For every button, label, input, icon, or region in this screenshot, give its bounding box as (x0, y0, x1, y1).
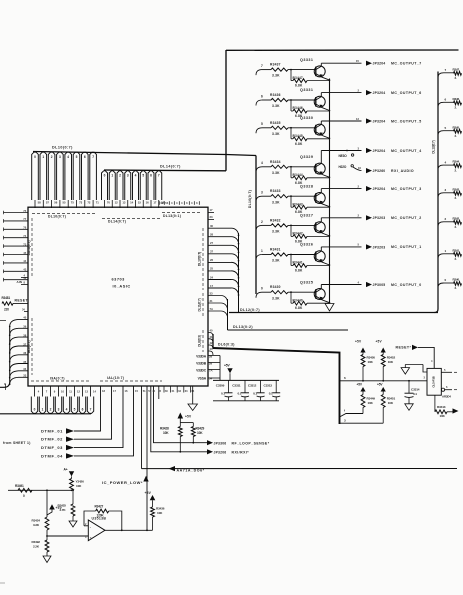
svg-text:R3440: R3440 (293, 298, 303, 302)
svg-text:+5V: +5V (224, 364, 230, 368)
svg-text:44: 44 (23, 259, 26, 263)
svg-text:RXI/RXI*: RXI/RXI* (232, 451, 250, 455)
svg-text:JP3005: JP3005 (373, 283, 386, 287)
svg-text:5: 5 (261, 122, 263, 126)
svg-text:33: 33 (210, 291, 214, 295)
svg-text:-: - (90, 525, 91, 529)
svg-text:4: 4 (261, 161, 263, 165)
svg-text:JP3203: JP3203 (373, 216, 386, 220)
svg-text:6: 6 (150, 174, 152, 178)
svg-text:35: 35 (23, 360, 26, 364)
svg-text:MC_OUTPUT_2: MC_OUTPUT_2 (391, 216, 422, 220)
svg-text:3.3K: 3.3K (272, 230, 280, 234)
svg-text:10K: 10K (368, 401, 374, 405)
svg-text:DL10(0:7): DL10(0:7) (48, 215, 66, 219)
svg-text:1: 1 (42, 407, 44, 411)
svg-text:2.: 2. (455, 168, 458, 172)
svg-text:0: 0 (261, 287, 263, 291)
svg-text:39: 39 (23, 325, 26, 329)
svg-text:R3445: R3445 (293, 134, 303, 138)
svg-text:7: 7 (261, 64, 263, 68)
svg-text:15: 15 (356, 59, 360, 63)
svg-text:0.1: 0.1 (269, 392, 273, 396)
svg-text:JP3260: JP3260 (373, 169, 386, 173)
svg-text:30: 30 (210, 224, 214, 228)
svg-text:34: 34 (23, 367, 26, 371)
svg-text:0.1: 0.1 (221, 392, 225, 396)
svg-text:19: 19 (160, 201, 163, 205)
svg-text:R340: R340 (453, 278, 460, 282)
svg-text:5: 5 (74, 407, 76, 411)
svg-text:DATA(0:7): DATA(0:7) (27, 241, 31, 256)
svg-text:38: 38 (23, 333, 26, 337)
svg-text:I9A(0:7): I9A(0:7) (50, 376, 65, 380)
svg-text:R3444: R3444 (293, 173, 303, 177)
svg-text:26: 26 (210, 258, 214, 262)
svg-text:12: 12 (115, 200, 119, 204)
svg-text:DTMF_03: DTMF_03 (41, 445, 63, 450)
svg-text:0: 0 (104, 174, 106, 178)
svg-text:DL6(0:3): DL6(0:3) (198, 335, 202, 347)
svg-text:MC_OUTPUT_4: MC_OUTPUT_4 (391, 149, 422, 153)
svg-text:25: 25 (210, 267, 214, 271)
svg-text:37: 37 (210, 250, 214, 254)
svg-text:DL13(0:1): DL13(0:1) (163, 214, 181, 218)
svg-text:75: 75 (71, 200, 75, 204)
svg-text:R3433: R3433 (270, 189, 281, 193)
svg-text:DL14(0:7): DL14(0:7) (160, 165, 181, 169)
svg-text:JP3204: JP3204 (373, 119, 386, 123)
svg-text:CLO-P1B: CLO-P1B (432, 376, 436, 387)
svg-text:R3427: R3427 (95, 505, 104, 509)
svg-text:R347: R347 (453, 67, 460, 71)
svg-text:63703: 63703 (112, 276, 126, 281)
svg-text:R3436: R3436 (270, 93, 281, 97)
svg-text:R342: R342 (453, 216, 460, 220)
svg-text:13: 13 (122, 200, 126, 204)
svg-text:DL10(0:7): DL10(0:7) (52, 146, 73, 150)
svg-text:17: 17 (210, 208, 214, 212)
svg-text:73: 73 (79, 200, 83, 204)
svg-text:2: 2 (261, 220, 263, 224)
svg-text:R3434: R3434 (270, 160, 281, 164)
svg-text:JP3204: JP3204 (373, 91, 386, 95)
svg-text:43: 43 (23, 268, 26, 272)
svg-text:AR3D4: AR3D4 (442, 394, 451, 398)
svg-text:15: 15 (135, 389, 138, 393)
svg-text:RXI_AUDIO: RXI_AUDIO (391, 169, 414, 173)
svg-text:7: 7 (92, 155, 94, 159)
svg-text:Q3331: Q3331 (300, 88, 313, 92)
svg-text:V33DB: V33DB (196, 362, 207, 366)
svg-text:1: 1 (111, 174, 113, 178)
svg-text:6: 6 (261, 94, 263, 98)
svg-text:DL6(0:3): DL6(0:3) (218, 343, 235, 347)
svg-text:17: 17 (210, 284, 214, 288)
svg-text:AA71A_DO6*: AA71A_DO6* (177, 469, 205, 473)
svg-text:DL14(0:7): DL14(0:7) (108, 220, 126, 224)
svg-text:4: 4 (67, 155, 69, 159)
svg-text:from SHEET 1): from SHEET 1) (3, 441, 31, 445)
svg-text:37: 37 (23, 342, 26, 346)
svg-text:Y3426: Y3426 (76, 480, 85, 484)
svg-text:3.3K: 3.3K (272, 104, 280, 108)
svg-text:2: 2 (119, 174, 121, 178)
svg-text:6.8K: 6.8K (295, 306, 303, 310)
svg-text:RESET: RESET (15, 299, 29, 303)
svg-text:2.2K: 2.2K (33, 545, 40, 549)
svg-text:36: 36 (23, 351, 26, 355)
svg-text:7: 7 (90, 407, 92, 411)
svg-text:R3437: R3437 (270, 63, 281, 67)
svg-text:DL11(0:7): DL11(0:7) (198, 298, 202, 311)
svg-text:10K: 10K (76, 484, 82, 488)
svg-text:VSSA: VSSA (198, 377, 207, 381)
svg-text:73: 73 (23, 242, 26, 246)
svg-text:5: 5 (142, 174, 144, 178)
svg-text:40: 40 (210, 329, 213, 333)
svg-text:R3451: R3451 (387, 397, 396, 401)
svg-text:0.1: 0.1 (238, 392, 242, 396)
svg-text:DTMF_01: DTMF_01 (41, 428, 63, 433)
svg-text:R3432: R3432 (270, 218, 281, 222)
svg-text:R3431: R3431 (270, 248, 281, 252)
svg-text:Q3325: Q3325 (300, 280, 313, 284)
svg-text:13: 13 (85, 389, 88, 393)
svg-text:17: 17 (113, 389, 116, 393)
svg-text:R3441: R3441 (293, 261, 303, 265)
svg-text:Q3328: Q3328 (300, 184, 313, 188)
svg-text:16: 16 (146, 200, 150, 204)
svg-text:3.3K: 3.3K (272, 200, 280, 204)
svg-text:3: 3 (58, 407, 60, 411)
svg-text:0: 0 (34, 407, 36, 411)
svg-text:R346: R346 (453, 97, 460, 101)
svg-text:33: 33 (23, 374, 26, 378)
svg-text:RESET*: RESET* (396, 346, 412, 350)
svg-text:14: 14 (130, 200, 134, 204)
svg-text:MC_OUTPUT_0: MC_OUTPUT_0 (391, 283, 422, 287)
svg-text:58: 58 (38, 200, 42, 204)
svg-text:R3430: R3430 (270, 285, 281, 289)
svg-text:3.3K: 3.3K (272, 296, 280, 300)
svg-text:R345: R345 (453, 125, 460, 129)
svg-text:A IN: A IN (17, 280, 22, 284)
svg-text:MC_OUTPUT_3: MC_OUTPUT_3 (391, 187, 422, 191)
svg-text:f: f (344, 409, 345, 413)
svg-text:2.: 2. (455, 225, 458, 229)
svg-text:R3442: R3442 (293, 232, 303, 236)
svg-text:R3435: R3435 (270, 121, 281, 125)
svg-text:R3449: R3449 (367, 397, 376, 401)
svg-text:17: 17 (153, 200, 157, 204)
svg-text:H22O: H22O (339, 165, 347, 169)
svg-text:56: 56 (54, 200, 58, 204)
svg-text:Q3327: Q3327 (300, 214, 313, 218)
svg-text:DL12(0:7): DL12(0:7) (432, 140, 436, 153)
svg-text:2: 2 (51, 155, 53, 159)
svg-text:C3312: C3312 (248, 384, 257, 388)
svg-text:7A: 7A (210, 307, 214, 311)
svg-text:R3436: R3436 (156, 507, 165, 511)
svg-text:DTMF_04: DTMF_04 (41, 453, 63, 458)
svg-text:C3311: C3311 (232, 384, 241, 388)
svg-text:2.: 2. (455, 134, 458, 138)
svg-text:C3313: C3313 (264, 384, 273, 388)
svg-text:74: 74 (23, 234, 26, 238)
svg-text:JP3206: JP3206 (214, 450, 227, 454)
svg-text:R3481: R3481 (2, 296, 11, 300)
svg-text:MC_OUTPUT_7: MC_OUTPUT_7 (391, 62, 422, 66)
svg-text:10K: 10K (163, 431, 169, 435)
svg-text:2.: 2. (455, 106, 458, 110)
svg-text:10K: 10K (157, 511, 163, 515)
svg-text:10K: 10K (197, 431, 203, 435)
svg-text:10K: 10K (388, 401, 394, 405)
svg-text:1: 1 (261, 249, 263, 253)
svg-text:R344: R344 (453, 160, 460, 164)
svg-text:NE3O: NE3O (339, 154, 348, 158)
svg-text:DL10(0:7): DL10(0:7) (248, 190, 252, 208)
svg-text:220: 220 (4, 308, 9, 312)
svg-text:JP3204: JP3204 (373, 187, 386, 191)
svg-text:70: 70 (107, 200, 111, 204)
svg-text:4: 4 (66, 407, 68, 411)
svg-text:45: 45 (23, 251, 26, 255)
svg-text:3.3K: 3.3K (272, 259, 280, 263)
svg-text:JP3203: JP3203 (373, 245, 386, 249)
svg-text:12: 12 (77, 389, 80, 393)
svg-text:55: 55 (62, 200, 66, 204)
svg-text:A+: A+ (64, 468, 68, 472)
svg-text:IC_POWER_LOW*: IC_POWER_LOW* (102, 480, 143, 485)
svg-text:+5V: +5V (355, 340, 362, 344)
svg-text:R3443: R3443 (293, 202, 303, 206)
svg-text:6.8K: 6.8K (295, 269, 303, 273)
svg-text:57: 57 (46, 200, 50, 204)
svg-text:6.8K: 6.8K (295, 142, 303, 146)
svg-text:IAL(10:7): IAL(10:7) (107, 376, 124, 380)
svg-text:R3413: R3413 (437, 405, 446, 409)
svg-text:13: 13 (356, 117, 360, 121)
svg-text:C3314: C3314 (411, 387, 420, 391)
svg-text:V33DA: V33DA (196, 355, 207, 359)
svg-text:JP3204: JP3204 (373, 149, 386, 153)
svg-text:75: 75 (23, 209, 26, 213)
svg-text:JP3306: JP3306 (214, 441, 227, 445)
svg-text:R341: R341 (453, 248, 460, 252)
svg-text:40: 40 (23, 316, 26, 320)
svg-text:71: 71 (96, 200, 100, 204)
svg-text:DL17(0:7): DL17(0:7) (198, 252, 202, 266)
svg-text:5: 5 (76, 155, 78, 159)
svg-text:+5V: +5V (145, 491, 152, 495)
svg-text:16: 16 (125, 389, 128, 393)
svg-text:RF_LOOP_SENSE*: RF_LOOP_SENSE* (232, 441, 270, 445)
svg-text:0.1: 0.1 (253, 392, 257, 396)
svg-text:2.: 2. (455, 196, 458, 200)
svg-text:6.8K: 6.8K (295, 84, 303, 88)
svg-text:MC_OUTPUT_1: MC_OUTPUT_1 (391, 245, 422, 249)
svg-text:6: 6 (84, 155, 86, 159)
svg-text:1: 1 (42, 155, 44, 159)
svg-text:JP3204: JP3204 (373, 62, 386, 66)
svg-text:+5V: +5V (56, 506, 63, 510)
svg-text:R3491: R3491 (15, 484, 24, 488)
svg-text:R3447: R3447 (293, 76, 303, 80)
svg-text:DL12(0:7): DL12(0:7) (240, 308, 260, 312)
svg-text:U3513B: U3513B (92, 516, 107, 520)
svg-text:27: 27 (210, 241, 214, 245)
svg-text:24: 24 (210, 275, 214, 279)
svg-text:V33DC: V33DC (196, 369, 207, 373)
svg-text:R3429: R3429 (196, 427, 205, 431)
svg-text:R3428: R3428 (160, 427, 169, 431)
svg-text:DL13(0:2): DL13(0:2) (233, 325, 253, 329)
svg-text:54: 54 (165, 201, 168, 205)
svg-text:3: 3 (261, 191, 263, 195)
svg-text:3: 3 (59, 155, 61, 159)
svg-text:R3446: R3446 (293, 106, 303, 110)
svg-text:2.: 2. (455, 286, 458, 290)
svg-text:I0_ASIC: I0_ASIC (113, 283, 131, 288)
svg-text:10K: 10K (368, 360, 374, 364)
svg-text:MC_OUTPUT_5: MC_OUTPUT_5 (391, 119, 422, 123)
svg-text:18: 18 (102, 389, 105, 393)
svg-text:R3452: R3452 (387, 356, 396, 360)
svg-text:2.: 2. (455, 76, 458, 80)
svg-text:2.: 2. (455, 257, 458, 261)
svg-text:31: 31 (210, 299, 214, 303)
svg-text:MC_OUTPUT_6: MC_OUTPUT_6 (391, 91, 422, 95)
svg-text:10K: 10K (388, 360, 394, 364)
svg-text:77: 77 (23, 217, 26, 221)
svg-text:16: 16 (358, 166, 362, 170)
svg-text:R343: R343 (453, 187, 460, 191)
svg-text:23: 23 (210, 215, 214, 219)
svg-text:Q3331: Q3331 (300, 58, 313, 62)
svg-text:3.3K: 3.3K (272, 171, 280, 175)
svg-text:2: 2 (50, 407, 52, 411)
svg-text:72: 72 (87, 200, 91, 204)
svg-text:14: 14 (93, 389, 96, 393)
svg-text:C3309: C3309 (216, 384, 225, 388)
svg-text:R3492: R3492 (32, 540, 41, 544)
svg-text:6: 6 (82, 407, 84, 411)
svg-text:+5V: +5V (376, 340, 383, 344)
svg-text:3.3K: 3.3K (272, 132, 280, 136)
svg-text:DTMF_02: DTMF_02 (41, 437, 63, 442)
svg-text:15: 15 (138, 200, 142, 204)
svg-text:76: 76 (23, 226, 26, 230)
svg-text:R3424: R3424 (32, 519, 41, 523)
svg-text:Q3329: Q3329 (300, 155, 313, 159)
svg-text:Q3330: Q3330 (300, 116, 313, 120)
svg-text:3: 3 (127, 174, 129, 178)
svg-text:Q3326: Q3326 (300, 243, 313, 247)
svg-text:0.1: 0.1 (413, 392, 417, 396)
svg-text:10K: 10K (440, 414, 446, 418)
svg-text:0: 0 (34, 155, 36, 159)
svg-text:10: 10 (61, 389, 64, 393)
svg-text:4: 4 (135, 174, 137, 178)
svg-text:3.3K: 3.3K (272, 74, 280, 78)
svg-text:28: 28 (210, 233, 214, 237)
svg-text:R3450: R3450 (367, 356, 376, 360)
svg-text:3.3K: 3.3K (33, 523, 40, 527)
svg-text:+5V: +5V (185, 415, 192, 419)
svg-text:7: 7 (158, 174, 160, 178)
svg-text:I9L0(0:7): I9L0(0:7) (27, 341, 31, 354)
